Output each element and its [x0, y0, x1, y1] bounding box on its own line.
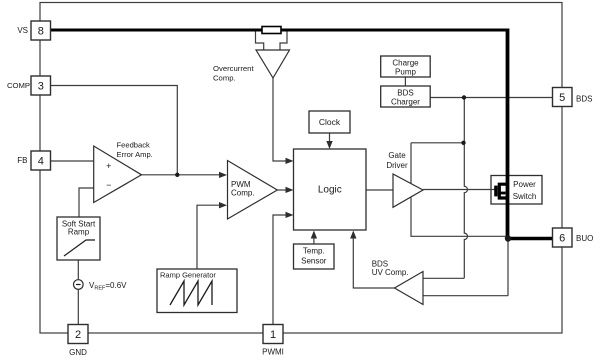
svg-text:Comp.: Comp. [231, 189, 255, 198]
svg-text:Gate: Gate [388, 151, 406, 160]
svg-text:Error Amp.: Error Amp. [117, 150, 153, 159]
svg-text:Charge: Charge [392, 59, 419, 68]
svg-text:UV Comp.: UV Comp. [372, 268, 409, 277]
svg-text:Comp.: Comp. [213, 74, 236, 83]
svg-text:4: 4 [38, 156, 44, 168]
svg-text:Ramp Generator: Ramp Generator [160, 271, 216, 280]
svg-text:Switch: Switch [513, 192, 537, 201]
svg-text:Overcurrent: Overcurrent [213, 64, 254, 73]
svg-text:+: + [106, 161, 111, 171]
svg-text:Clock: Clock [319, 117, 341, 127]
svg-text:Ramp: Ramp [68, 228, 90, 237]
svg-text:Pump: Pump [395, 68, 416, 77]
svg-text:VS: VS [17, 26, 28, 35]
svg-text:BUO: BUO [576, 234, 593, 243]
svg-text:BDS: BDS [576, 95, 592, 104]
svg-text:Temp.: Temp. [303, 247, 325, 256]
svg-text:Feedback: Feedback [117, 141, 151, 150]
svg-text:Power: Power [513, 180, 536, 189]
svg-text:5: 5 [559, 92, 565, 104]
svg-text:−: − [106, 180, 111, 190]
svg-text:BDS: BDS [397, 89, 413, 98]
svg-text:2: 2 [75, 329, 81, 341]
svg-text:3: 3 [38, 81, 44, 93]
svg-text:Sensor: Sensor [301, 257, 327, 266]
svg-text:COMP: COMP [7, 81, 30, 90]
svg-text:GND: GND [69, 348, 87, 357]
svg-text:Driver: Driver [386, 161, 408, 170]
svg-text:Charger: Charger [391, 98, 420, 107]
svg-text:Logic: Logic [318, 185, 342, 196]
svg-text:6: 6 [559, 233, 565, 245]
svg-text:PWMI: PWMI [262, 348, 284, 357]
svg-text:8: 8 [38, 26, 44, 38]
svg-text:FB: FB [17, 156, 27, 165]
svg-text:1: 1 [270, 329, 276, 341]
